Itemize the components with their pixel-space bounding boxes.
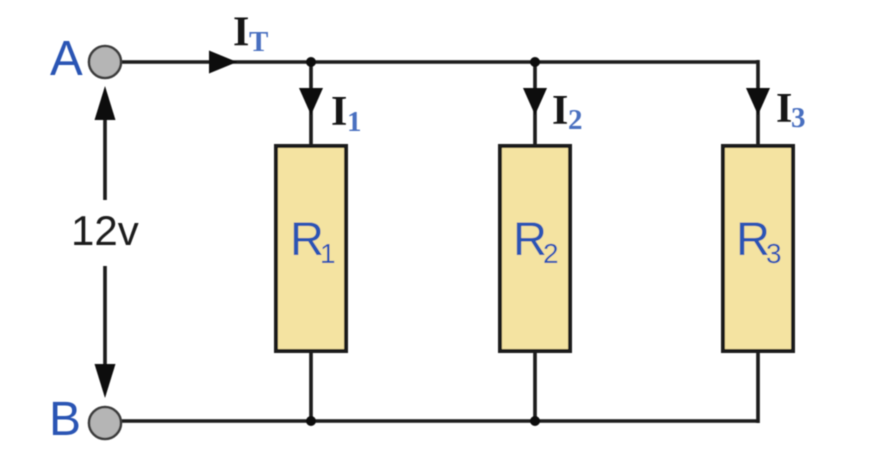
node junction dot top branch 1 [306,57,316,67]
resistor R3 body [723,146,793,351]
voltage source arrow line upper (12v) [103,100,107,200]
current arrow I1 down branch 1 [299,88,323,115]
svg-text:12v: 12v [71,207,139,254]
voltage arrowhead up toward A [95,86,116,120]
voltage arrowhead down toward B [95,364,116,398]
svg-text:1: 1 [320,238,336,269]
wire branch 3 vertical top [756,60,760,146]
svg-text:2: 2 [543,238,559,269]
svg-text:I: I [776,86,792,132]
svg-text:2: 2 [568,104,583,136]
terminal node A circle [89,46,121,78]
svg-text:I: I [552,88,568,134]
wire bottom horizontal B to bottom-right corner [120,419,758,423]
wire branch 3 vertical bottom [756,351,760,423]
resistor R1 body [276,146,346,351]
resistor R2 body [500,146,570,351]
svg-text:1: 1 [347,106,362,138]
voltage source arrow line lower (12v) [103,266,107,370]
svg-text:R: R [736,212,770,265]
svg-text:I: I [233,10,249,56]
terminal node B circle [89,407,121,439]
svg-text:R: R [513,212,547,265]
svg-text:3: 3 [791,102,806,134]
svg-text:A: A [50,32,83,86]
current arrow IT on top wire [209,51,237,74]
svg-text:R: R [290,212,324,265]
node junction dot top branch 2 [530,57,540,67]
wire top horizontal A to top-right corner [120,60,758,64]
current arrow I2 down branch 2 [523,88,547,115]
svg-text:T: T [249,26,268,58]
svg-text:3: 3 [766,238,782,269]
svg-text:B: B [49,393,81,446]
node junction dot bottom branch 1 [306,416,316,426]
wire branch 1 vertical bottom [309,351,313,421]
current arrow I3 down branch 3 [746,88,770,115]
svg-text:I: I [331,89,347,135]
wire branch 1 vertical top [309,62,313,146]
wire branch 2 vertical top [533,62,537,146]
node junction dot bottom branch 2 [530,416,540,426]
wire branch 2 vertical bottom [533,351,537,421]
